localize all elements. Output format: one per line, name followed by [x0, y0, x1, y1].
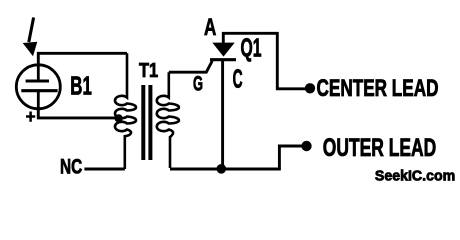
transformer T1 primary winding	[115, 53, 136, 169]
wire: anode loop to center lead	[223, 33, 305, 89]
junction dot: cathode and bottom rail	[217, 164, 227, 174]
svg-text:NC: NC	[60, 155, 82, 179]
svg-text:B1: B1	[70, 73, 92, 101]
SCR Q1 anode triangle	[212, 43, 234, 57]
junction dot: primary center tap	[115, 114, 123, 122]
wire: battery positive to center tap	[38, 107, 116, 118]
svg-text:CENTER LEAD: CENTER LEAD	[317, 75, 439, 102]
wire: secondary top to SCR gate	[169, 61, 212, 72]
terminal dot: center lead	[305, 83, 315, 93]
svg-text:Q1: Q1	[241, 32, 262, 62]
wire: bottom rail up to outer lead	[279, 146, 302, 169]
battery B1	[16, 65, 60, 109]
battery plus sign	[26, 112, 35, 122]
svg-text:C: C	[233, 65, 243, 93]
wire: primary bottom to NC	[84, 168, 124, 171]
annotation arrow	[23, 18, 38, 57]
svg-text:SeekIC.com: SeekIC.com	[375, 169, 455, 185]
svg-text:G: G	[193, 72, 203, 96]
svg-text:OUTER LEAD: OUTER LEAD	[323, 134, 436, 162]
terminal dot: outer lead	[301, 141, 311, 151]
bottom rail wire	[170, 168, 281, 171]
transformer T1 core	[143, 85, 150, 160]
SCR Q1 cathode bar	[210, 58, 236, 61]
transformer T1 secondary winding	[157, 72, 179, 168]
svg-text:T1: T1	[139, 59, 158, 82]
wire: cathode down to bottom rail	[221, 60, 224, 169]
wire: battery top to transformer primary (top rail)	[38, 53, 127, 66]
svg-text:A: A	[204, 14, 217, 41]
